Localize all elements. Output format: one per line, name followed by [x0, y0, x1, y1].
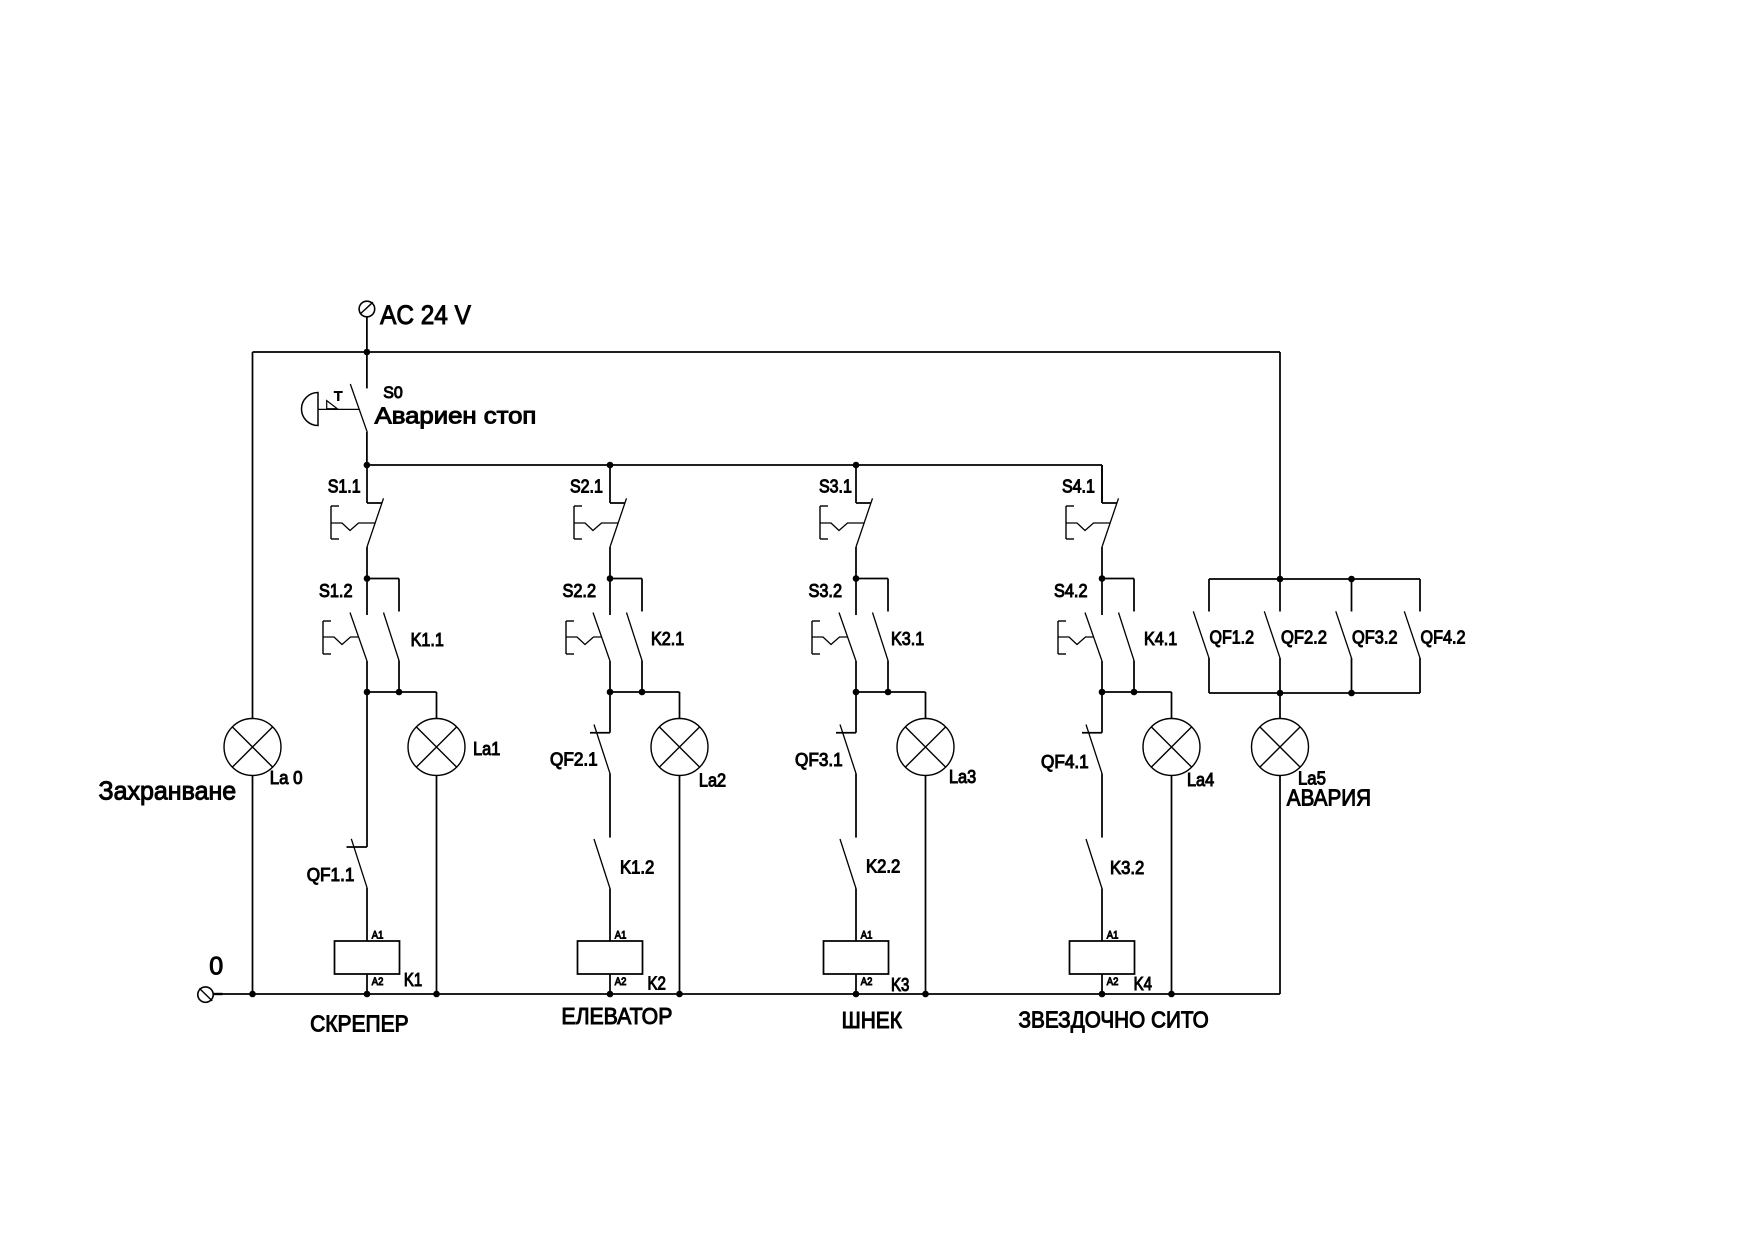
svg-text:ШНЕК: ШНЕК — [842, 1007, 903, 1033]
wire lamp drop — [436, 692, 438, 719]
breaker aux contact QF4.1 — [1082, 692, 1102, 838]
relay NO contact K4.1 — [1119, 579, 1135, 693]
signal lamp La0 (supply) — [224, 719, 281, 776]
junction S2.2 node — [607, 575, 614, 582]
svg-text:K2.2: K2.2 — [866, 857, 900, 877]
svg-text:S2.2: S2.2 — [563, 581, 597, 601]
wire La5 to 0 rail — [1279, 776, 1281, 995]
junction bottom bus/La5 — [1277, 690, 1284, 697]
svg-text:K1.2: K1.2 — [620, 857, 654, 877]
svg-text:QF4.2: QF4.2 — [1421, 628, 1466, 648]
contactor coil K1 — [335, 941, 400, 974]
junction coil/0 rail — [607, 991, 614, 998]
breaker signal contact QF2.2 — [1264, 579, 1280, 693]
pushbutton NC contact S3.1 — [820, 465, 873, 579]
svg-text:K3.1: K3.1 — [891, 629, 924, 649]
junction lamp/0 rail — [676, 991, 683, 998]
junction S0/control rail — [364, 462, 371, 469]
junction branch 4 lower left — [1099, 689, 1106, 696]
pushbutton NO contact S2.2 — [566, 579, 610, 693]
wire QF group bottom bus — [1209, 692, 1420, 694]
relay NO contact K3.1 — [873, 579, 889, 693]
pushbutton NC contact S1.1 — [331, 465, 384, 579]
junction feed/top bus — [1277, 576, 1284, 583]
junction coil/0 rail — [1099, 991, 1106, 998]
svg-text:La 0: La 0 — [270, 768, 303, 788]
contactor coil K3 — [824, 941, 889, 974]
svg-text:T: T — [334, 388, 343, 403]
pushbutton NC contact S2.1 — [574, 465, 627, 579]
svg-text:K3.2: K3.2 — [1110, 858, 1144, 878]
svg-text:AC 24 V: AC 24 V — [380, 300, 471, 330]
wire junction row — [610, 691, 680, 693]
contactor coil K2 — [578, 941, 643, 974]
relay interlock NO contact K1.2 — [594, 839, 610, 941]
signal lamp La3 — [897, 719, 954, 776]
svg-text:QF3.1: QF3.1 — [795, 750, 843, 770]
signal lamp La1 — [408, 719, 465, 776]
junction coil/0 rail — [364, 991, 371, 998]
emergency stop button S0 (mushroom head NC) — [302, 352, 368, 465]
wire QF group top bus — [1209, 578, 1420, 580]
pushbutton NO contact S1.2 — [323, 579, 367, 693]
svg-text:S1.2: S1.2 — [319, 581, 353, 601]
junction S3.2 node — [853, 575, 860, 582]
svg-text:QF1.1: QF1.1 — [307, 865, 355, 885]
wire control rail (after S0) — [367, 464, 1102, 466]
wire coil to 0 rail — [855, 974, 857, 994]
alarm lamp La5 — [1252, 719, 1309, 776]
wire junction row — [856, 691, 926, 693]
svg-text:K2.1: K2.1 — [651, 629, 684, 649]
pushbutton NC contact S4.1 — [1066, 465, 1119, 579]
signal lamp La4 — [1143, 719, 1200, 776]
breaker signal contact QF4.2 — [1404, 579, 1420, 693]
wire lamp to 0 rail — [925, 776, 927, 995]
svg-text:K3: K3 — [891, 975, 909, 995]
terminal AC 24 V — [359, 301, 375, 317]
contactor coil K4 — [1070, 941, 1135, 974]
node branch 2 tap — [607, 462, 614, 469]
svg-text:A2: A2 — [615, 976, 627, 988]
svg-text:La4: La4 — [1187, 770, 1214, 790]
junction S4.2 node — [1099, 575, 1106, 582]
relay interlock NO contact K2.2 — [840, 839, 856, 941]
svg-text:K1.1: K1.1 — [411, 630, 444, 650]
node branch 3 tap — [853, 462, 860, 469]
svg-text:A2: A2 — [1107, 976, 1119, 988]
junction rail1/S0 — [364, 349, 371, 356]
wire coil to 0 rail — [1101, 974, 1103, 994]
breaker aux contact QF2.1 — [590, 692, 610, 838]
svg-text:K2: K2 — [648, 974, 666, 994]
wire terminal to rail — [366, 317, 368, 352]
svg-text:A1: A1 — [615, 930, 627, 942]
svg-text:S2.1: S2.1 — [570, 477, 603, 497]
signal lamp La2 — [651, 719, 708, 776]
junction branch 1 lower left — [364, 689, 371, 696]
wire to K2.1 — [610, 578, 642, 580]
junction lamp/0 rail — [433, 991, 440, 998]
svg-text:S3.2: S3.2 — [809, 581, 843, 601]
svg-text:A1: A1 — [1107, 930, 1119, 942]
svg-text:A2: A2 — [861, 976, 873, 988]
wire junction row — [367, 691, 437, 693]
wire to K4.1 — [1102, 578, 1134, 580]
pushbutton NO contact S3.2 — [812, 579, 856, 693]
wire lamp drop — [679, 692, 681, 719]
svg-text:S4.1: S4.1 — [1062, 477, 1095, 497]
svg-text:QF2.1: QF2.1 — [550, 750, 598, 770]
svg-text:La2: La2 — [699, 770, 726, 790]
junction branch 1 lower right — [396, 689, 403, 696]
svg-text:A2: A2 — [372, 976, 384, 988]
wire lamp to 0 rail — [679, 776, 681, 995]
junction branch 2 lower left — [607, 689, 614, 696]
pushbutton NO contact S4.2 — [1058, 579, 1102, 693]
junction lamp/0 rail — [922, 991, 929, 998]
wire junction row — [1102, 691, 1172, 693]
wire 0 rail — [213, 993, 1280, 995]
wire lamp drop — [925, 692, 927, 719]
svg-text:S1.1: S1.1 — [328, 477, 361, 497]
relay NO contact K1.1 — [384, 579, 400, 693]
wire to K1.1 — [367, 578, 399, 580]
svg-text:QF2.2: QF2.2 — [1281, 628, 1327, 648]
junction branch 3 lower left — [853, 689, 860, 696]
svg-text:K4: K4 — [1134, 974, 1152, 994]
wire coil to 0 rail — [366, 974, 368, 994]
svg-text:A1: A1 — [372, 930, 384, 942]
wire coil to 0 rail — [609, 974, 611, 994]
svg-text:QF3.2: QF3.2 — [1352, 628, 1398, 648]
terminal 0 — [198, 987, 223, 1002]
wire lamp to 0 rail — [1171, 776, 1173, 995]
svg-text:ЕЛЕВАТОР: ЕЛЕВАТОР — [561, 1003, 672, 1029]
svg-text:СКРЕПЕР: СКРЕПЕР — [310, 1011, 409, 1037]
junction top bus QF3.2 — [1348, 576, 1355, 583]
relay interlock NO contact K3.2 — [1086, 839, 1102, 941]
svg-text:Авариен стоп: Авариен стоп — [375, 403, 537, 429]
junction coil/0 rail — [853, 991, 860, 998]
junction bottom bus QF3.2 — [1348, 690, 1355, 697]
svg-text:0: 0 — [209, 952, 223, 980]
wire La0 to 0 rail — [252, 776, 254, 995]
wire top supply rail — [253, 351, 1281, 353]
wire lamp drop — [1171, 692, 1173, 719]
junction lamp/0 rail — [1168, 991, 1175, 998]
svg-text:La3: La3 — [949, 767, 976, 787]
breaker aux contact QF3.1 — [836, 692, 856, 838]
svg-text:La1: La1 — [473, 739, 500, 759]
breaker signal contact QF3.2 — [1336, 579, 1352, 693]
junction branch 4 lower right — [1131, 689, 1138, 696]
svg-text:QF4.1: QF4.1 — [1041, 752, 1089, 772]
wire left rail upper — [252, 352, 254, 719]
svg-text:A1: A1 — [861, 930, 873, 942]
svg-text:Захранване: Захранване — [99, 776, 237, 806]
junction left rail/0 rail — [249, 991, 256, 998]
svg-text:K4.1: K4.1 — [1144, 629, 1177, 649]
relay NO contact K2.1 — [627, 579, 643, 693]
wire to K3.1 — [856, 578, 888, 580]
wire right feed upper — [1279, 352, 1281, 579]
svg-text:K1: K1 — [404, 970, 422, 990]
svg-text:АВАРИЯ: АВАРИЯ — [1287, 785, 1371, 811]
svg-text:S0: S0 — [383, 383, 403, 402]
wire bus to La5 — [1279, 693, 1281, 719]
breaker aux contact QF1.1 — [347, 692, 368, 941]
svg-text:ЗВЕЗДОЧНО СИТО: ЗВЕЗДОЧНО СИТО — [1019, 1006, 1209, 1032]
junction S1.2 node — [364, 575, 371, 582]
svg-text:QF1.2: QF1.2 — [1210, 628, 1255, 648]
breaker signal contact QF1.2 — [1193, 579, 1209, 693]
wire lamp to 0 rail — [436, 776, 438, 995]
junction branch 2 lower right — [639, 689, 646, 696]
svg-text:S3.1: S3.1 — [819, 477, 852, 497]
junction branch 3 lower right — [885, 689, 892, 696]
svg-text:S4.2: S4.2 — [1054, 581, 1088, 601]
